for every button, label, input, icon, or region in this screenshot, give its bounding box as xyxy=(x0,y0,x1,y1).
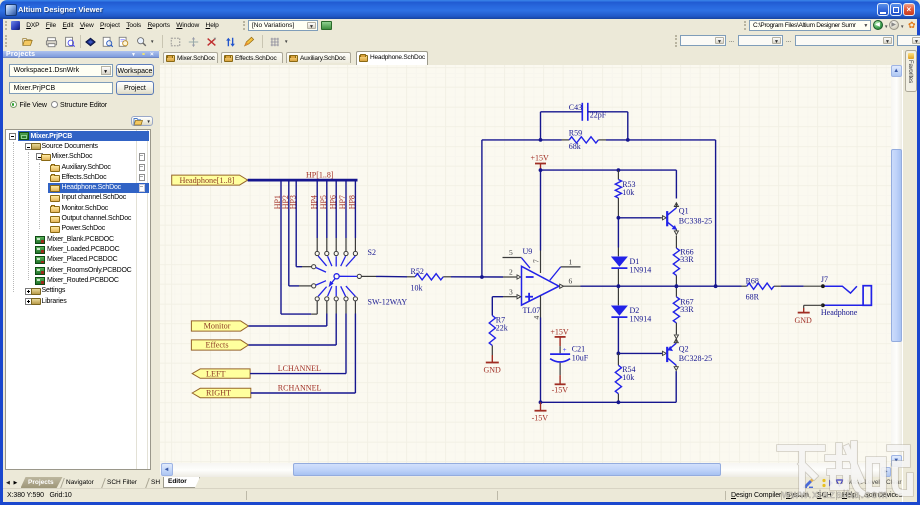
net label HP5 xyxy=(319,195,328,209)
wire HP7 pin to switch contact xyxy=(345,238,347,251)
wire +15V down to op-amp pin7 xyxy=(540,170,542,250)
svg-text:RIGHT: RIGHT xyxy=(206,388,231,397)
designator R68 xyxy=(746,276,759,285)
ground GND (J7) xyxy=(795,312,813,324)
svg-text:Q2: Q2 xyxy=(679,344,689,353)
designator Q2 xyxy=(679,344,689,353)
svg-text:HP3: HP3 xyxy=(288,195,297,209)
value 10k (R54) xyxy=(622,373,634,382)
power +15V (C21) xyxy=(550,327,569,346)
power +15V (op-amp rail) xyxy=(531,153,550,169)
port Monitor xyxy=(191,320,248,330)
svg-text:HP7: HP7 xyxy=(338,195,347,209)
pin 3 number xyxy=(509,287,513,296)
connector J7 headphone jack xyxy=(823,285,871,305)
svg-text:HP6: HP6 xyxy=(328,195,337,209)
wire D1 cathode to output node xyxy=(617,268,619,285)
designator R7 xyxy=(496,315,505,324)
junction +15V node xyxy=(539,168,543,172)
pin 2 number xyxy=(509,267,513,276)
junction C43 right xyxy=(626,138,630,142)
wire R68 to J7 xyxy=(781,285,823,287)
designator C43 xyxy=(569,102,582,111)
junction Q1 base node xyxy=(617,215,621,219)
svg-text:www.xiazaiba.com: www.xiazaiba.com xyxy=(781,489,888,501)
value 33R (R66) xyxy=(680,255,694,264)
svg-text:1N914: 1N914 xyxy=(630,314,652,323)
junction output/feedback xyxy=(714,284,718,288)
wire rail corner down to Q1 xyxy=(675,170,677,198)
wire switch to RCHANNEL / RIGHT xyxy=(251,301,356,393)
value SW-12WAY xyxy=(368,297,408,306)
value 10k (R53) xyxy=(622,188,634,197)
wire HP5 vertical drop xyxy=(326,181,328,238)
designator Q1 xyxy=(679,206,689,215)
port RIGHT xyxy=(192,388,251,397)
wire switch common to R52 xyxy=(361,275,415,277)
bus HP[1..8] xyxy=(248,178,358,181)
svg-text:HP4: HP4 xyxy=(309,195,318,209)
value 33R (R67) xyxy=(680,305,694,314)
designator R59 xyxy=(569,128,582,137)
wire to Q2 base xyxy=(618,351,666,355)
svg-text:HP8: HP8 xyxy=(348,195,357,209)
svg-text:1: 1 xyxy=(569,257,573,266)
wire switch to Monitor xyxy=(248,301,326,326)
pin 1 stub xyxy=(550,266,581,279)
wire -15V bottom rail xyxy=(541,401,677,403)
resistor R66 xyxy=(673,235,679,286)
wire R52 to op-amp pin 2 xyxy=(443,274,521,278)
svg-text:6: 6 xyxy=(569,276,573,285)
net label HP4 xyxy=(309,195,318,209)
op-amp U9 TL07 xyxy=(522,266,560,305)
resistor R52 xyxy=(415,273,443,279)
junction R54 bottom xyxy=(617,400,621,404)
wire switch to LCHANNEL / LEFT xyxy=(250,301,346,374)
junction output/R66 R67 xyxy=(675,284,679,288)
capacitor C21 10uF xyxy=(550,345,570,374)
diode D2 1N914 xyxy=(611,286,628,317)
value 68k xyxy=(569,141,581,150)
value 10k xyxy=(411,283,423,292)
svg-text:Effects: Effects xyxy=(205,340,228,349)
svg-text:C21: C21 xyxy=(572,344,585,353)
svg-text:Q1: Q1 xyxy=(679,206,689,215)
resistor R59 xyxy=(569,136,598,142)
svg-text:GND: GND xyxy=(484,365,502,374)
svg-text:68R: 68R xyxy=(746,292,760,301)
wire op-amp pin4 to -15V rail xyxy=(540,317,542,402)
value 1N914 (D2) xyxy=(630,314,652,323)
wire HP5 pin to switch contact xyxy=(326,238,328,251)
value BC328-25 xyxy=(679,353,712,362)
horizontal scrollbar xyxy=(160,463,890,477)
wire switch to Effects xyxy=(248,301,336,345)
junction C43 left xyxy=(539,138,543,142)
net label HP7 xyxy=(338,195,347,209)
svg-text:LCHANNEL: LCHANNEL xyxy=(278,364,321,373)
svg-text:+15V: +15V xyxy=(531,153,550,162)
wire HP2 to switch left contact xyxy=(289,284,312,286)
designator S2 xyxy=(368,247,376,256)
svg-text:RCHANNEL: RCHANNEL xyxy=(278,383,322,392)
net label HP3 xyxy=(288,195,297,209)
diode D1 1N914 xyxy=(611,256,628,268)
pin 6 output xyxy=(560,276,581,288)
value 10uF xyxy=(572,353,589,362)
port LEFT xyxy=(192,368,250,377)
svg-text:S2: S2 xyxy=(368,247,376,256)
value 68R xyxy=(746,292,760,301)
wire op-amp output to R68 xyxy=(581,285,742,287)
rotary switch S2 SW-12WAY xyxy=(312,251,362,301)
svg-text:10k: 10k xyxy=(622,373,634,382)
net label RCHANNEL xyxy=(278,383,322,392)
wire HP7 vertical drop xyxy=(345,181,347,238)
designator C21 xyxy=(572,344,585,353)
junction R53 top xyxy=(617,168,621,172)
svg-text:TL07: TL07 xyxy=(523,306,541,315)
wire R7 to GND xyxy=(491,345,493,355)
svg-text:+15V: +15V xyxy=(550,327,569,336)
wire HP2 vertical drop xyxy=(288,181,290,286)
ground GND (R7) xyxy=(484,355,502,374)
svg-text:BC328-25: BC328-25 xyxy=(679,353,712,362)
designator R66 xyxy=(680,247,693,256)
designator R52 xyxy=(411,267,424,276)
svg-text:Headphone[1..8]: Headphone[1..8] xyxy=(179,175,234,184)
svg-text:10k: 10k xyxy=(622,188,634,197)
wire R53 top pin xyxy=(617,170,619,179)
power -15V (rail) xyxy=(532,402,549,422)
svg-text:5: 5 xyxy=(509,248,513,257)
svg-text:HP5: HP5 xyxy=(319,195,328,209)
wire HP3 vertical drop xyxy=(295,181,297,266)
value 22k xyxy=(496,323,508,332)
svg-text:-15V: -15V xyxy=(532,413,549,422)
svg-text:C43: C43 xyxy=(569,102,582,111)
wire J7 sleeve to GND xyxy=(804,305,823,312)
svg-text:10k: 10k xyxy=(411,283,423,292)
svg-text:33R: 33R xyxy=(680,305,694,314)
vertical scrollbar xyxy=(891,65,903,468)
resistor R54 xyxy=(615,353,621,402)
wire R53 bottom to D1 xyxy=(617,198,619,256)
svg-text:Monitor: Monitor xyxy=(204,321,231,330)
designator R53 xyxy=(622,179,635,188)
pin 5 stub xyxy=(503,257,531,268)
wire Q2 collector down xyxy=(675,371,677,402)
value 22pF xyxy=(590,110,607,119)
net label HP8 xyxy=(348,195,357,209)
junction Q2 base node xyxy=(617,351,621,355)
pin 5 number xyxy=(509,248,513,257)
wire HP1 to switch contact xyxy=(281,301,317,314)
label Headphone (jack) xyxy=(821,308,858,317)
window borders xyxy=(0,19,3,505)
junction J7 sleeve xyxy=(821,303,825,307)
svg-text:1N914: 1N914 xyxy=(630,265,652,274)
svg-text:33R: 33R xyxy=(680,255,694,264)
svg-text:BC338-25: BC338-25 xyxy=(679,216,712,225)
designator R67 xyxy=(680,297,693,306)
svg-text:2: 2 xyxy=(509,267,513,276)
junction -15V node xyxy=(539,400,543,404)
net label HP[1..8] xyxy=(306,170,334,179)
svg-text:SW-12WAY: SW-12WAY xyxy=(368,297,408,306)
svg-text:Headphone: Headphone xyxy=(821,308,858,317)
value 1N914 (D1) xyxy=(630,265,652,274)
svg-text:GND: GND xyxy=(795,315,813,324)
svg-text:+: + xyxy=(563,345,567,353)
resistor R67 xyxy=(673,286,679,339)
designator D2 xyxy=(630,306,640,315)
transistor Q2 BC328-25 xyxy=(667,338,678,370)
wire C43 branch left xyxy=(541,111,583,139)
svg-text:68k: 68k xyxy=(569,141,581,150)
capacitor C43 xyxy=(582,102,588,120)
resistor R68 xyxy=(742,283,782,289)
wire feedback vertical left xyxy=(481,139,483,276)
wire D2 cathode down xyxy=(617,317,619,353)
wire HP6 pin to switch contact xyxy=(335,238,337,251)
wire HP6 vertical drop xyxy=(335,181,337,238)
wire +15V rail xyxy=(541,169,677,171)
svg-text:J7: J7 xyxy=(821,275,828,284)
wire HP8 vertical drop xyxy=(354,181,356,238)
wire HP4 vertical drop xyxy=(316,181,318,238)
value BC338-25 xyxy=(679,216,712,225)
wire HP8 pin to switch contact xyxy=(354,238,356,251)
net label HP1 xyxy=(273,195,282,209)
value TL07 xyxy=(523,306,541,315)
designator R54 xyxy=(622,365,635,374)
transistor Q1 BC338-25 xyxy=(667,202,678,234)
net label HP2 xyxy=(281,195,290,209)
pin 1 number xyxy=(569,257,573,266)
pin 4 (V-) xyxy=(532,295,541,319)
designator U9 xyxy=(523,246,533,255)
pin 3 wire and arrow xyxy=(492,294,521,298)
wire feedback to output node xyxy=(715,139,717,285)
power -15V (C21) xyxy=(552,375,569,394)
svg-text:U9: U9 xyxy=(523,246,533,255)
svg-text:4: 4 xyxy=(532,315,541,319)
net label LCHANNEL xyxy=(278,364,321,373)
wire HP4 pin to switch contact xyxy=(316,238,318,251)
wire HP3 to switch upper-left contact xyxy=(296,265,311,267)
junction feedback/input node xyxy=(480,275,484,279)
wire C43 branch right xyxy=(588,111,628,139)
svg-text:22k: 22k xyxy=(496,323,508,332)
net label HP6 xyxy=(328,195,337,209)
resistor R7 xyxy=(489,315,495,345)
svg-text:-15V: -15V xyxy=(552,385,569,394)
svg-text:HP[1..8]: HP[1..8] xyxy=(306,170,334,179)
designator J7 xyxy=(821,275,828,284)
wire pin3 to R7 xyxy=(491,296,493,315)
pin 7 (V+) xyxy=(532,250,541,273)
svg-text:3: 3 xyxy=(509,287,513,296)
junction J7 tip xyxy=(821,284,825,288)
junction output/D diodes xyxy=(617,284,621,288)
wire feedback horizontal (R59 net) xyxy=(482,138,716,140)
svg-text:LEFT: LEFT xyxy=(206,369,226,378)
wire to Q1 base xyxy=(618,215,666,219)
svg-text:10uF: 10uF xyxy=(572,353,589,362)
port Effects xyxy=(191,339,248,349)
svg-text:R52: R52 xyxy=(411,267,424,276)
wire HP1 vertical drop xyxy=(280,181,282,314)
svg-text:7: 7 xyxy=(532,259,541,263)
svg-text:R68: R68 xyxy=(746,276,759,285)
designator D1 xyxy=(630,257,640,266)
svg-text:R59: R59 xyxy=(569,128,582,137)
resistor R53 xyxy=(615,179,621,198)
port Headphone[1..8] xyxy=(172,175,248,185)
